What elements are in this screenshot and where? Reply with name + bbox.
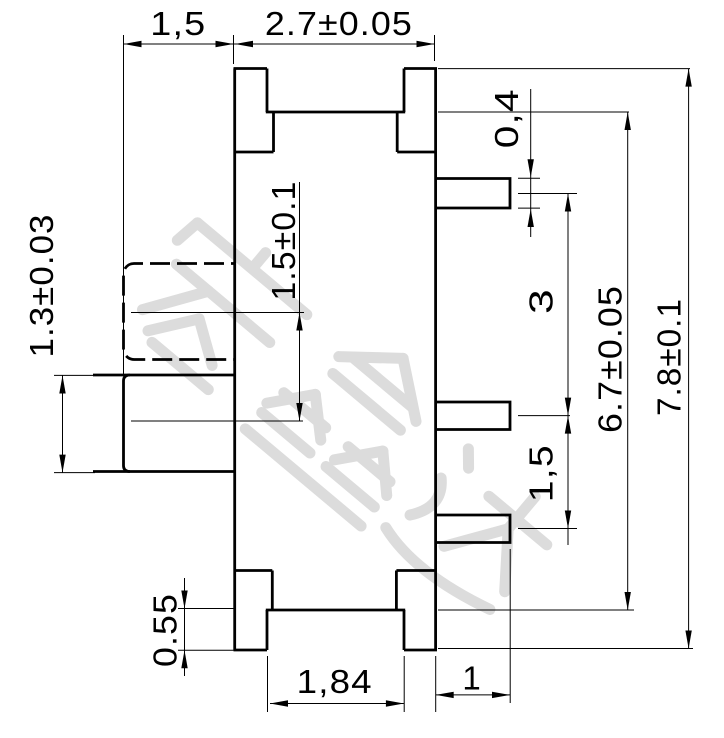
0.55 outer arrows [181,591,187,609]
ext from top post top to 7.8 dim [438,68,690,70]
dashed knob [124,264,235,360]
pin2 center ext [518,415,570,417]
ext line left of 1,5 top dim, down to dashed knob [123,35,125,376]
watermark [113,198,580,625]
solid knob bottom edge [93,470,234,473]
bottom-right post [403,610,406,650]
pin1 top ext tick [518,177,540,179]
body left edge [233,69,236,651]
1.3 top/bottom [59,376,65,394]
ext from bottom post bottom to 7.8 dim [438,648,693,650]
1.5+-0.1 top/bottom [296,313,302,331]
dim line 1.3 [62,376,64,473]
pin 2 [436,402,511,430]
ext left for 1,84 [267,656,269,712]
svg-text:3: 3 [523,288,560,314]
dim line 1,5 + 2.7 [124,43,435,45]
pin 3 [436,515,511,543]
svg-text:0.55: 0.55 [147,593,184,667]
body right ext below post for 1 dim [435,656,437,712]
ext right for 1,84 [403,656,405,712]
watermark glyph 3 [381,436,566,620]
top-left inner tab [272,112,275,152]
solid knob centerline [131,420,303,422]
thick outline [93,69,510,651]
ext 1.3 top [54,374,95,376]
pin1 bottom ext tick [518,207,540,209]
1,5 right top/bottom [565,416,571,434]
dashed knob centerline [131,312,304,314]
6.7 top/bottom [625,112,631,130]
svg-text:1,5: 1,5 [150,5,206,42]
dim line 0.55 [184,578,186,676]
2.7 left/right [235,41,253,47]
1,84 left/right [270,700,288,706]
7.8 top/bottom [685,69,691,87]
svg-text:1,84: 1,84 [297,663,373,700]
1 left/right [436,692,454,698]
ext line at body right for 2.7 dim [434,35,436,61]
body right edge [434,69,437,651]
dim line 0,4 vertical [530,89,532,237]
body bottom edge [266,609,405,612]
svg-text:0,4: 0,4 [488,88,525,148]
solid knob left edge [124,375,131,472]
watermark glyph 1 [117,204,321,407]
svg-text:1.5±0.1: 1.5±0.1 [265,181,302,301]
watermark glyph 2 [245,310,461,526]
top-right inner tab [396,112,399,152]
dim line 3 and 1,5 right [567,194,569,546]
pin right ext down to 1 dim [509,549,511,703]
svg-text:2.7±0.05: 2.7±0.05 [265,5,413,42]
ext from body bottom to 6.7 dim [438,609,634,611]
1,5 top left/right [124,41,142,47]
pin1 center ext [518,193,577,195]
svg-text:6.7±0.05: 6.7±0.05 [592,285,629,433]
top-right post [404,67,437,70]
dim line 7.8 [688,69,690,649]
body top edge [266,111,405,114]
dim line 1.5+-0.1 [299,182,301,421]
bottom-right inner tab [395,571,398,611]
ext line at body left for top dims [233,35,235,64]
svg-text:1.3±0.03: 1.3±0.03 [23,214,60,358]
svg-text:1: 1 [462,660,481,697]
svg-text:1,5: 1,5 [523,444,560,502]
ext 1.3 bottom [54,472,95,474]
dim line 1 [436,694,510,696]
ext from body top to 6.7 dim [438,111,629,113]
top-left post [234,67,268,70]
0,4 outer arrows [528,159,534,177]
pin3 center ext [518,528,577,530]
solid knob top edge [93,374,234,377]
ext 0.55 bottom [178,649,234,651]
arrowheads [59,41,692,707]
dim line 1,84 [270,703,404,705]
svg-text:7.8±0.1: 7.8±0.1 [651,298,688,416]
dim line 6.7 [627,112,629,610]
ext 0.55 top [178,608,234,610]
pin 1 [436,179,511,209]
bottom-left post [266,610,269,650]
bottom-left inner tab [271,571,274,611]
3 top/bottom [565,194,571,212]
